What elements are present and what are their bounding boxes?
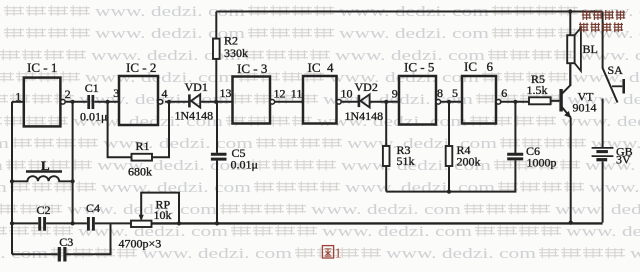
wire VD1 to IC-3 pin 13 [200, 101, 232, 103]
wire R3 top leg [385, 102, 387, 146]
svg-text:6: 6 [501, 86, 507, 100]
wire pin 4 to VD1 [165, 101, 189, 103]
svg-text:R1: R1 [136, 139, 150, 153]
node pin6/C6 [513, 100, 517, 104]
wire pin2 to C1 [65, 101, 87, 103]
svg-text:IC - 2: IC - 2 [126, 60, 156, 75]
svg-text:2: 2 [65, 87, 71, 101]
red forum watermark text top right [579, 10, 625, 32]
node C5/bottom rail [215, 221, 219, 225]
svg-text:13: 13 [220, 86, 232, 100]
svg-text:5: 5 [452, 86, 458, 100]
pin 10 bubble on IC-4 [337, 100, 342, 105]
capacitor C4 [88, 217, 93, 231]
svg-text:www. dedzi. com: www. dedzi. com [339, 26, 489, 42]
pin 2 bubble on IC-1 [61, 100, 66, 105]
wire R2 top leg [215, 12, 217, 39]
svg-text:www. dedzi. com: www. dedzi. com [311, 202, 461, 218]
svg-text:1: 1 [335, 247, 342, 262]
wire top supply rail [216, 11, 602, 13]
wire C6 top leg [514, 102, 516, 153]
svg-text:www. dedzi. com: www. dedzi. com [0, 26, 1, 42]
wire VD2 to IC-5 pin 9 [370, 101, 399, 103]
wire R1 left leg [108, 102, 132, 157]
wire R2 bottom leg [215, 59, 217, 102]
svg-text:IC - 3: IC - 3 [237, 61, 267, 76]
wire pin 10 to VD2 [341, 101, 359, 103]
capacitor C5 [211, 154, 227, 159]
wire left rail from pin 1 down [11, 102, 13, 255]
ic block IC-5 [399, 76, 436, 125]
svg-text:www. dedzi. com: www. dedzi. com [79, 92, 229, 108]
svg-text:www. dedzi. com: www. dedzi. com [630, 246, 640, 262]
svg-text:1: 1 [15, 89, 21, 103]
node left rail/bottom row [10, 221, 14, 225]
svg-text:IC: IC [464, 59, 477, 74]
wire BL top feed from rail [569, 12, 571, 36]
svg-text:www. dedzi. com: www. dedzi. com [585, 158, 640, 174]
svg-text:C4: C4 [86, 201, 100, 215]
node VD2/R3 [384, 100, 388, 104]
wire pin 1 stub [12, 101, 24, 103]
capacitor C1 [89, 95, 93, 109]
svg-text:10: 10 [341, 87, 353, 101]
wire pin 12 to pin 11 [275, 101, 303, 103]
loudspeaker BL cone [575, 28, 581, 71]
resistor R4 [446, 146, 453, 166]
inductor L core bar [26, 170, 62, 173]
diode VD1 (1N4148) cathode bar [188, 94, 191, 107]
wire R4 top leg [448, 102, 450, 146]
wire R1 right leg [152, 102, 169, 157]
svg-text:IC - 1: IC - 1 [27, 60, 57, 75]
svg-text:8: 8 [437, 86, 443, 100]
node pin2/L branch [71, 100, 75, 104]
wire C5 top leg [216, 102, 218, 153]
wire SA feed from rail [602, 12, 604, 69]
svg-text:www. dedzi. com: www. dedzi. com [322, 224, 472, 240]
pin 6 bubble on IC-6 [496, 100, 501, 105]
svg-text:www. dedzi. com: www. dedzi. com [0, 4, 1, 20]
svg-text:11: 11 [291, 87, 303, 101]
wire C1 to pin 3 [94, 101, 119, 103]
node pin4/R1 branch [167, 100, 171, 104]
svg-text:0.01μ: 0.01μ [231, 158, 258, 172]
svg-text:6: 6 [487, 59, 494, 74]
loudspeaker BL driver rectangle [567, 35, 574, 63]
ic block IC-6 [462, 76, 496, 124]
svg-text:1N4148: 1N4148 [175, 109, 214, 123]
wire C3 row right segment [67, 223, 111, 254]
wire R4 bottom leg [448, 166, 450, 192]
capacitor C6 [507, 154, 523, 159]
diode VD2 triangle [360, 94, 369, 107]
wire branch pin2-node down to L and bottom row [72, 102, 74, 224]
svg-text:1N4148: 1N4148 [345, 109, 384, 123]
node pin13/R2/C5 [214, 100, 218, 104]
wire bottom row C2-C4 segment [46, 222, 87, 224]
resistor R1 [132, 154, 153, 161]
red figure label 图1 [322, 246, 333, 258]
svg-text:51k: 51k [397, 154, 415, 168]
pin 4 bubble on IC-2 [158, 100, 163, 105]
node top rail/BL [568, 9, 572, 13]
wire R3 bottom leg [385, 166, 387, 192]
node L/branch bottom [71, 179, 75, 183]
svg-text:www. dedzi. com: www. dedzi. com [555, 202, 640, 218]
svg-text:www. dedzi. com: www. dedzi. com [317, 114, 467, 130]
wire VT emitter down to bottom rail [570, 118, 572, 223]
resistor R5 [529, 97, 551, 104]
svg-text:1.5k: 1.5k [527, 83, 548, 97]
svg-text:200k: 200k [457, 155, 481, 169]
wire battery minus to bottom rail [602, 162, 604, 223]
capacitor C2 [40, 217, 45, 231]
pin 8 bubble on IC-5 [436, 100, 441, 105]
svg-text:www. dedzi. com: www. dedzi. com [142, 246, 292, 262]
svg-text:L: L [41, 158, 50, 173]
svg-text:C1: C1 [85, 81, 99, 95]
switch SA blade [603, 68, 618, 103]
wire C3 row [12, 253, 58, 255]
node left rail/L [10, 179, 14, 183]
potentiometer RP wiper arrow and loop to right terminal [141, 193, 179, 224]
svg-text:9: 9 [392, 87, 398, 101]
node pin5/R4 [447, 100, 451, 104]
svg-text:C3: C3 [59, 235, 73, 249]
transistor VT collector lead [562, 85, 571, 94]
wire bottom row C2 segment [12, 222, 38, 224]
svg-text:www. dedzi. com: www. dedzi. com [561, 114, 640, 130]
ic block IC-4 [303, 76, 337, 124]
pin 12 bubble on IC-3 [270, 100, 275, 105]
svg-text:4: 4 [327, 60, 334, 75]
node emitter/bottom rail [569, 221, 573, 225]
diode VD1 triangle [191, 94, 200, 107]
wire R5 to VT base [551, 100, 560, 102]
svg-text:VD2: VD2 [355, 80, 378, 94]
svg-text:9014: 9014 [573, 101, 597, 115]
wire R3/R4/C6 bottom net [386, 160, 515, 191]
battery GB plates [592, 147, 614, 149]
svg-text:IC: IC [308, 60, 321, 75]
svg-text:330k: 330k [224, 46, 248, 60]
svg-text:www. dedzi. com: www. dedzi. com [0, 136, 9, 152]
ic block IC-3 [233, 77, 271, 124]
svg-text:www. dedzi. com: www. dedzi. com [386, 246, 536, 262]
wire SA to battery [602, 99, 604, 148]
node R4 bottom [447, 190, 451, 194]
wire BL bottom to VT collector [569, 63, 571, 85]
resistor R2 [213, 39, 220, 59]
svg-text:10k: 10k [154, 208, 172, 222]
wire pin 6 to R5 [501, 101, 529, 103]
svg-text:12: 12 [274, 87, 286, 101]
resistor R3 [383, 146, 390, 166]
inductor L winding [12, 176, 73, 181]
svg-text:3V: 3V [616, 153, 631, 167]
node branch/bottom row [71, 221, 75, 225]
transistor VT emitter lead with arrow [562, 107, 571, 118]
svg-text:0.01μ: 0.01μ [80, 110, 107, 124]
wire bottom rail right section [152, 222, 603, 224]
svg-text:BL: BL [583, 42, 598, 56]
svg-text:1000p: 1000p [527, 156, 557, 170]
svg-text:www. dedzi. com: www. dedzi. com [345, 180, 495, 196]
svg-text:www. dedzi. com: www. dedzi. com [566, 224, 640, 240]
svg-text:SA: SA [608, 63, 624, 77]
capacitor C3 [59, 247, 65, 262]
diode VD2 (1N4148) cathode bar [358, 95, 361, 107]
svg-text:www. dedzi. com: www. dedzi. com [0, 158, 3, 174]
svg-text:www. dedzi. com: www. dedzi. com [95, 26, 245, 42]
node pin3/R1 branch [106, 100, 110, 104]
svg-text:www. dedzi. com: www. dedzi. com [589, 180, 640, 196]
svg-text:www. dedzi. com: www. dedzi. com [85, 70, 235, 86]
ic block IC-1 [24, 78, 61, 127]
wire pin 8 to IC-6 pin 5 [441, 101, 462, 103]
svg-text:3: 3 [113, 86, 119, 100]
switch SA contact [612, 85, 622, 87]
node RP right [177, 221, 181, 225]
svg-text:4700p×3: 4700p×3 [119, 237, 162, 251]
wire bottom row C4-RP segment [95, 222, 131, 224]
transistor VT 9014 base bar [559, 89, 562, 112]
svg-text:www. dedzi. com: www. dedzi. com [347, 136, 497, 152]
wire C5 bottom leg [216, 161, 218, 224]
ic block IC-2 [119, 76, 158, 125]
svg-text:IC - 5: IC - 5 [404, 60, 434, 75]
svg-text:680k: 680k [128, 165, 152, 179]
svg-text:C2: C2 [37, 203, 51, 217]
svg-text:VD1: VD1 [185, 80, 208, 94]
svg-text:www. dedzi. com: www. dedzi. com [0, 180, 7, 196]
potentiometer RP body [131, 221, 152, 227]
svg-text:4: 4 [162, 87, 168, 101]
